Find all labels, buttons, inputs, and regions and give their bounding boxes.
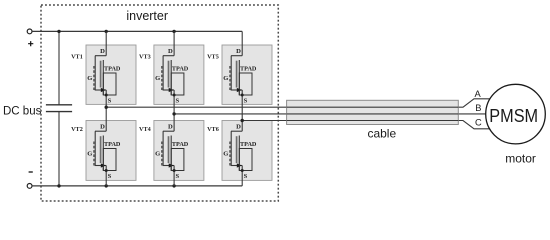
- svg-text:A: A: [474, 89, 481, 99]
- VT2 source arrowhead: [101, 163, 106, 167]
- VT1 source arrowhead: [101, 88, 106, 92]
- VT4 gate gray bar: [168, 136, 170, 163]
- VT5 drain lead wire: [241, 31, 243, 55]
- capacitor C bottom plate: [46, 111, 72, 113]
- VT4 drain jog wire: [163, 130, 174, 132]
- svg-text:TPAD: TPAD: [104, 65, 121, 72]
- VT2 drain jog wire: [95, 130, 106, 132]
- VT3 TPAD loop: [171, 73, 184, 95]
- VT6 drain jog wire: [231, 130, 242, 132]
- junction: VT3 drain on top rail: [172, 30, 175, 33]
- capacitor C (DC link): top lead: [58, 31, 60, 104]
- svg-text:DC bus: DC bus: [3, 106, 42, 118]
- transistor VT1 (MOSFET module): [71, 31, 136, 107]
- VT5 left conductor bar: [230, 56, 232, 90]
- label -: [29, 171, 33, 173]
- VT6 gate gray bar: [236, 136, 238, 163]
- capacitor C top plate: [46, 104, 72, 106]
- wire phase B (VT3/VT4 midpoint to cable/motor): [174, 113, 488, 115]
- svg-text:D: D: [100, 124, 105, 131]
- junction: VT4 source on bottom rail: [172, 184, 175, 187]
- svg-text:G: G: [87, 151, 92, 158]
- VT1 source lead wire: [105, 90, 107, 107]
- svg-text:S: S: [108, 173, 112, 180]
- svg-text:S: S: [244, 173, 248, 180]
- VT4 drain lead wire: [173, 114, 175, 131]
- svg-text:inverter: inverter: [126, 9, 168, 23]
- VT1 drain lead wire: [105, 31, 107, 55]
- svg-text:TPAD: TPAD: [240, 141, 257, 148]
- terminal + (DC bus positive): [27, 29, 32, 34]
- svg-text:D: D: [236, 124, 241, 131]
- svg-text:G: G: [155, 75, 160, 82]
- junction: VT2 source on bottom rail: [105, 184, 108, 187]
- VT1 gate gray bar: [100, 61, 102, 88]
- motor M1 (PMSM) circle: [486, 84, 546, 144]
- svg-text:D: D: [100, 48, 105, 55]
- VT3 channel bar: [170, 60, 172, 95]
- VT2 source wire: [95, 165, 107, 167]
- svg-text:VT6: VT6: [207, 126, 219, 133]
- VT1 source wire: [95, 89, 107, 91]
- VT1 drain jog wire: [95, 55, 106, 57]
- VT3 left conductor bar: [162, 56, 164, 90]
- VT3 source arrowhead: [169, 88, 174, 92]
- VT4 left conductor bar: [162, 131, 164, 165]
- svg-text:B: B: [475, 103, 481, 113]
- wire: top DC bus rail: [32, 30, 242, 32]
- VT6 module body: [222, 121, 272, 181]
- VT3 source lead wire: [173, 90, 175, 114]
- VT2 TPAD loop: [103, 149, 116, 171]
- VT4 channel bar: [170, 136, 172, 171]
- svg-text:G: G: [223, 151, 228, 158]
- svg-text:VT4: VT4: [139, 126, 151, 133]
- VT1 TPAD junction dot: [105, 94, 108, 97]
- junction: VT1 drain on top rail: [105, 30, 108, 33]
- VT5 TPAD junction dot: [241, 94, 244, 97]
- junction: capacitor to top rail: [57, 30, 60, 33]
- VT6 gate dashed electrode: [229, 142, 231, 166]
- inverter dashed boundary box: [41, 5, 278, 201]
- VT2 source lead wire: [105, 166, 107, 186]
- VT6 TPAD junction dot: [241, 169, 244, 172]
- svg-text:D: D: [236, 48, 241, 55]
- wire: bottom DC bus rail: [32, 185, 242, 187]
- transistor VT4 (MOSFET module): [139, 114, 204, 186]
- svg-text:PMSM: PMSM: [489, 105, 538, 126]
- VT4 TPAD junction dot: [173, 169, 176, 172]
- transistor VT6 (MOSFET module): [207, 121, 272, 186]
- VT6 TPAD loop: [239, 149, 252, 171]
- svg-text:VT1: VT1: [71, 54, 83, 61]
- svg-text:TPAD: TPAD: [172, 141, 189, 148]
- VT4 gate dashed electrode: [161, 142, 163, 166]
- svg-text:G: G: [155, 151, 160, 158]
- VT3 source wire: [163, 89, 175, 91]
- VT5 TPAD loop: [239, 73, 252, 95]
- VT1 gate dashed electrode: [93, 66, 95, 90]
- svg-text:TPAD: TPAD: [104, 141, 121, 148]
- VT6 channel bar: [238, 136, 240, 171]
- VT3 module body: [154, 45, 204, 104]
- wire phase C inside cable: [287, 120, 459, 122]
- svg-text:D: D: [168, 124, 173, 131]
- VT2 module body: [86, 121, 136, 181]
- junction: phase A node: [105, 106, 108, 109]
- VT6 source lead wire: [241, 166, 243, 186]
- svg-text:motor: motor: [505, 152, 536, 166]
- VT4 module body: [154, 121, 204, 181]
- VT3 drain lead wire: [173, 31, 175, 55]
- svg-text:VT2: VT2: [71, 126, 83, 133]
- VT4 source lead wire: [173, 166, 175, 186]
- svg-text:VT3: VT3: [139, 54, 151, 61]
- svg-text:C: C: [475, 117, 482, 127]
- VT1 channel bar: [102, 60, 104, 95]
- VT1 left conductor bar: [94, 56, 96, 90]
- cable shield box: [287, 100, 459, 124]
- VT3 TPAD junction dot: [173, 94, 176, 97]
- svg-text:G: G: [87, 75, 92, 82]
- label +: [28, 41, 33, 46]
- transistor VT3 (MOSFET module): [139, 31, 204, 114]
- VT5 gate dashed electrode: [229, 66, 231, 90]
- VT1 TPAD loop: [103, 73, 116, 95]
- VT4 TPAD loop: [171, 149, 184, 171]
- VT5 module body: [222, 45, 272, 104]
- VT2 channel bar: [102, 136, 104, 171]
- terminal - (DC bus negative): [27, 184, 32, 189]
- wire phase C (VT5/VT6 midpoint to cable/motor): [242, 121, 492, 129]
- svg-text:D: D: [168, 48, 173, 55]
- VT5 source lead wire: [241, 90, 243, 121]
- VT5 drain jog wire: [231, 55, 242, 57]
- svg-text:S: S: [108, 97, 112, 104]
- VT2 drain lead wire: [105, 107, 107, 131]
- VT4 source arrowhead: [169, 163, 174, 167]
- VT3 gate dashed electrode: [161, 66, 163, 90]
- VT1 module body: [86, 45, 136, 104]
- VT6 source arrowhead: [237, 163, 242, 167]
- junction: phase C node: [241, 119, 244, 122]
- VT6 left conductor bar: [230, 131, 232, 165]
- VT6 drain lead wire: [241, 121, 243, 132]
- VT3 drain jog wire: [163, 55, 174, 57]
- transistor VT5 (MOSFET module): [207, 31, 272, 120]
- wire phase B inside cable: [287, 113, 459, 115]
- VT2 gate dashed electrode: [93, 142, 95, 166]
- VT5 gate gray bar: [236, 61, 238, 88]
- VT2 TPAD junction dot: [105, 169, 108, 172]
- svg-text:TPAD: TPAD: [240, 65, 257, 72]
- capacitor C bottom lead: [58, 112, 60, 186]
- junction: phase B node: [172, 112, 175, 115]
- wire phase A (VT1/VT2 midpoint to cable/motor): [106, 99, 492, 107]
- svg-text:TPAD: TPAD: [172, 65, 189, 72]
- junction: capacitor to bottom rail: [57, 184, 60, 187]
- VT3 gate gray bar: [168, 61, 170, 88]
- svg-text:VT5: VT5: [207, 54, 219, 61]
- VT2 left conductor bar: [94, 131, 96, 165]
- VT5 source arrowhead: [237, 88, 242, 92]
- VT2 gate gray bar: [100, 136, 102, 163]
- svg-text:S: S: [175, 97, 179, 104]
- VT6 source wire: [231, 165, 243, 167]
- wire phase A inside cable: [287, 106, 459, 108]
- svg-text:S: S: [175, 173, 179, 180]
- svg-text:S: S: [244, 97, 248, 104]
- VT4 source wire: [163, 165, 175, 167]
- VT5 channel bar: [238, 60, 240, 95]
- svg-text:cable: cable: [367, 126, 396, 140]
- svg-text:G: G: [223, 75, 228, 82]
- VT5 source wire: [231, 89, 243, 91]
- transistor VT2 (MOSFET module): [71, 107, 136, 186]
